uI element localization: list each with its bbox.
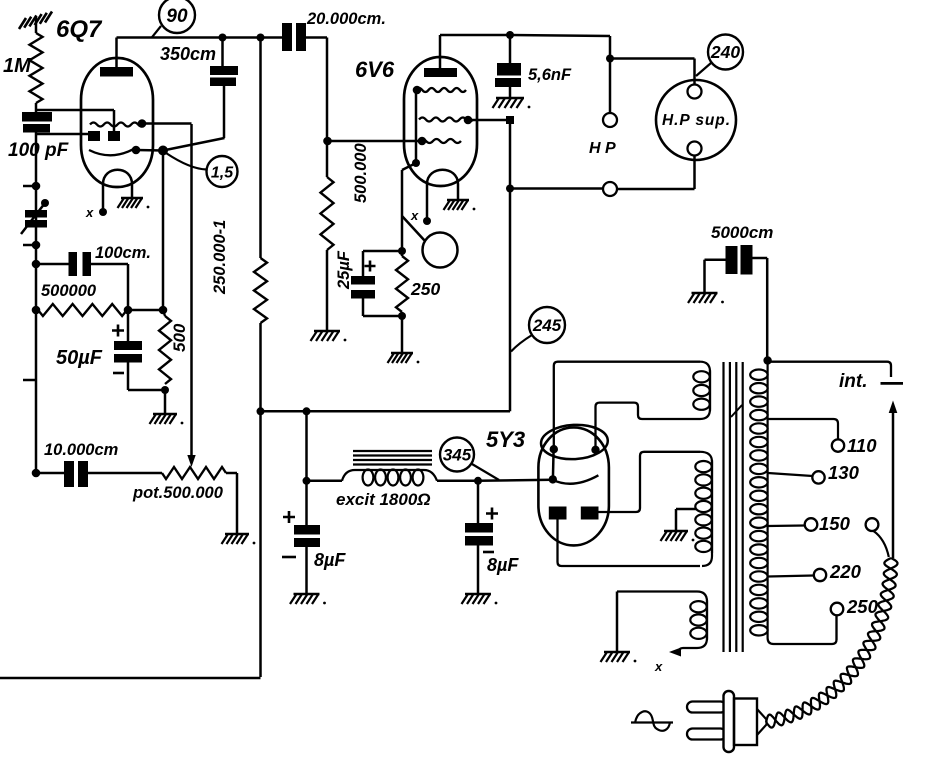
- svg-text:25µF: 25µF: [335, 250, 353, 290]
- diode plates (6Q7): [88, 131, 120, 141]
- label H P: [589, 140, 616, 157]
- wire: [136, 149, 163, 152]
- label 5,6nF: [528, 66, 572, 84]
- minus sign: [483, 551, 494, 554]
- node: [464, 116, 473, 125]
- svg-text:20.000cm.: 20.000cm.: [306, 10, 386, 28]
- svg-text:x: x: [410, 208, 419, 223]
- node tick: [23, 241, 40, 250]
- wire (B+ rail): [261, 410, 511, 413]
- terminal circle (HP bottom): [603, 182, 617, 196]
- internal lead (6V6): [402, 90, 420, 170]
- wire: [102, 184, 105, 209]
- node tick: [23, 379, 36, 382]
- node: [303, 477, 311, 485]
- ground: [493, 98, 531, 108]
- label 500 (rotated): [170, 323, 189, 352]
- node: [32, 306, 41, 315]
- cathode smile arc (6Q7): [89, 147, 137, 155]
- transformer secondary HT winding: [695, 452, 712, 566]
- terminal x (6V6 cathode): [410, 208, 431, 225]
- ground: [444, 200, 476, 210]
- plus sign: [283, 511, 295, 523]
- label 130: [828, 462, 860, 483]
- wire: [115, 38, 118, 68]
- svg-text:5,6nF: 5,6nF: [528, 66, 572, 84]
- wire: [128, 363, 165, 391]
- circled label 245: [529, 307, 565, 343]
- wire: [437, 480, 478, 483]
- grid 1 wavy (6V6): [416, 88, 466, 92]
- wire: [128, 309, 163, 312]
- wire: [468, 119, 510, 122]
- choke excit 1800 ohm (core): [353, 451, 432, 465]
- circled label 90: [152, 0, 195, 37]
- resistor R6 250 (cathode): [396, 251, 408, 316]
- twisted mains cord: [766, 558, 898, 728]
- ground: [388, 353, 420, 363]
- svg-text:250.000-1: 250.000-1: [211, 220, 229, 295]
- label 250.000-1 (rotated): [211, 220, 229, 295]
- wire: [510, 35, 610, 36]
- svg-text:1M: 1M: [3, 55, 32, 77]
- choke excit coil: [342, 470, 437, 486]
- anode plates (5Y3): [549, 507, 599, 520]
- svg-text:H.P sup.: H.P sup.: [662, 112, 730, 129]
- label 5Y3: [486, 427, 525, 452]
- filament cylinder (5Y3): [540, 423, 608, 484]
- wire: [478, 480, 553, 481]
- label 6V6: [355, 57, 395, 82]
- minus sign: [282, 556, 296, 559]
- node: [591, 446, 599, 454]
- capacitor C6 350cm: [210, 66, 238, 86]
- grid wavy (6Q7): [90, 123, 145, 127]
- svg-text:500: 500: [170, 323, 189, 352]
- terminal circle (HP sup bottom pin): [688, 142, 702, 156]
- svg-text:x: x: [654, 659, 663, 674]
- label 250: [846, 596, 879, 617]
- svg-text:int.: int.: [839, 371, 868, 392]
- node: [257, 34, 265, 42]
- svg-text:8µF: 8µF: [487, 555, 519, 575]
- wire: [363, 250, 402, 253]
- label 220: [829, 561, 862, 582]
- wire (bottom return): [0, 677, 261, 680]
- label 110: [847, 435, 877, 456]
- node: [124, 306, 133, 315]
- svg-text:6V6: 6V6: [355, 57, 395, 82]
- node: [413, 86, 422, 95]
- wire: [510, 187, 603, 190]
- transformer primary winding: [750, 361, 836, 645]
- wire: [163, 310, 165, 316]
- grid 3 wavy (6V6 control grid): [419, 139, 461, 143]
- mains plug: [687, 691, 767, 752]
- tap wire 150: [768, 518, 817, 531]
- svg-text:50µF: 50µF: [56, 347, 103, 369]
- ground: [222, 534, 256, 544]
- svg-text:220: 220: [829, 561, 862, 582]
- label 500.000 (rotated): [352, 143, 370, 203]
- node: [219, 34, 227, 42]
- node: [138, 119, 147, 128]
- terminal circle (HP sup top pin): [688, 85, 702, 99]
- label 350cm: [160, 44, 216, 64]
- label 150: [819, 513, 851, 534]
- anode (6V6 plate): [424, 68, 457, 77]
- plus sign: [486, 508, 498, 520]
- label 100cm.: [95, 244, 151, 262]
- svg-text:130: 130: [828, 462, 860, 483]
- tube 6V6 envelope: [404, 57, 477, 186]
- arrow x (heater lead): [654, 648, 681, 675]
- circled label 345: [440, 438, 499, 481]
- svg-text:150: 150: [819, 513, 851, 534]
- wire: [509, 35, 512, 97]
- resistor R1 1M: [30, 33, 43, 103]
- label 8µF: [487, 555, 519, 575]
- node A: [158, 146, 168, 156]
- svg-text:H P: H P: [589, 140, 616, 157]
- ground: [601, 652, 637, 662]
- wire (filament right leg): [596, 403, 701, 450]
- label excit 1800Ω: [336, 490, 431, 509]
- anode (6Q7 plate): [100, 67, 133, 77]
- wire: [91, 264, 128, 310]
- capacitor C9 5,6nF: [495, 63, 521, 87]
- label 100 pF: [8, 140, 70, 161]
- node: [550, 445, 558, 453]
- svg-text:500.000: 500.000: [352, 143, 370, 203]
- svg-text:5Y3: 5Y3: [486, 427, 525, 452]
- speaker H.P sup.: [656, 80, 736, 160]
- svg-text:345: 345: [443, 446, 472, 465]
- node: [32, 469, 41, 478]
- wire: [363, 251, 402, 316]
- wire (filament left to 5V winding): [554, 362, 700, 450]
- capacitor C1 100pF: [22, 112, 52, 133]
- transformer core: [724, 362, 743, 652]
- AC symbol: [631, 711, 673, 730]
- ground: [290, 594, 326, 604]
- label 5000cm: [711, 223, 773, 242]
- wire: [35, 103, 38, 112]
- wire (screen to B+): [509, 120, 512, 411]
- wire: [37, 133, 90, 136]
- wire: [226, 473, 237, 533]
- resistor R5 500.000 (6V6 grid leak): [321, 141, 334, 330]
- svg-text:x: x: [85, 205, 94, 220]
- plus sign: [112, 325, 124, 337]
- wire: [426, 184, 429, 218]
- selector arrow: [889, 401, 898, 559]
- svg-text:100 pF: 100 pF: [8, 140, 70, 161]
- capacitor C4 50uF: [114, 341, 142, 363]
- wire: [552, 449, 555, 479]
- wire: [401, 316, 404, 352]
- wire (right plate to HT winding top): [599, 452, 701, 512]
- selector terminal circle: [866, 518, 879, 531]
- label 10.000cm: [44, 441, 118, 459]
- label 500000: [41, 282, 97, 300]
- wire: [616, 592, 619, 652]
- wire (curve from terminal): [874, 531, 889, 557]
- wire: [35, 16, 38, 33]
- wire: [36, 472, 162, 475]
- node: [32, 260, 41, 269]
- svg-text:245: 245: [532, 316, 562, 335]
- wire (pointer line): [511, 335, 532, 352]
- wire: [753, 258, 768, 361]
- tap 250 circle: [831, 603, 844, 640]
- potentiometer pot.500.000: [162, 467, 226, 479]
- wire: [609, 36, 612, 59]
- node: [506, 31, 514, 39]
- dial lamp circle: [423, 233, 458, 268]
- node: [159, 306, 168, 315]
- transformer secondary 5V winding: [693, 362, 710, 419]
- tube 6Q7 envelope: [81, 58, 153, 187]
- svg-text:pot.500.000: pot.500.000: [132, 484, 224, 502]
- resistor R4 250.000-1: [254, 38, 267, 678]
- switch int. bar: [881, 382, 904, 385]
- wire: [306, 38, 327, 142]
- resistor R2 500000: [38, 304, 127, 316]
- capacitor C12 5000cm: [726, 245, 753, 275]
- node tick: [23, 182, 40, 191]
- wire (left plate to HT winding bottom): [558, 520, 701, 567]
- curve to 1,5 label: [166, 153, 207, 170]
- ground: [311, 331, 347, 341]
- svg-text:110: 110: [847, 435, 877, 456]
- tube 5Y3 envelope: [538, 427, 609, 545]
- label 8µF: [314, 550, 346, 570]
- wire (cathode chain): [401, 170, 404, 251]
- wire: [35, 133, 38, 474]
- capacitor C3 100cm: [69, 252, 92, 276]
- wire: [440, 35, 510, 68]
- wire: [457, 184, 460, 199]
- svg-text:10.000cm: 10.000cm: [44, 441, 118, 459]
- node: [161, 386, 169, 394]
- svg-text:100cm.: 100cm.: [95, 244, 151, 262]
- label 6Q7: [56, 16, 103, 43]
- wire: [609, 59, 612, 114]
- HT center tap wire: [676, 509, 696, 530]
- label 1M: [3, 55, 32, 77]
- node (primary top): [763, 356, 771, 364]
- wiper arrow (to pot): [187, 124, 195, 467]
- cathode arc (6Q7): [103, 170, 132, 184]
- tap wire 110: [768, 419, 844, 452]
- node: [418, 137, 427, 146]
- label 25µF (rotated): [335, 250, 353, 290]
- capacitor C8 25uF: [351, 276, 375, 299]
- svg-text:500000: 500000: [41, 282, 97, 300]
- wire: [307, 480, 343, 483]
- terminal x (6Q7 cathode): [85, 205, 107, 220]
- ground: [688, 293, 724, 303]
- tap wire 220: [768, 569, 826, 581]
- label 50µF: [56, 347, 103, 369]
- wire (diagonal to 350cm): [163, 138, 225, 151]
- ground: [118, 198, 150, 208]
- grid 2 wavy (6V6 screen): [419, 118, 473, 122]
- wire: [164, 390, 167, 413]
- capacitor C11 8uF: [465, 523, 493, 546]
- transformer secondary 6.3V winding: [617, 592, 707, 653]
- svg-text:350cm: 350cm: [160, 44, 216, 64]
- node: [323, 137, 332, 146]
- plus sign: [365, 261, 376, 272]
- node: [398, 247, 406, 255]
- svg-text:90: 90: [166, 6, 188, 27]
- minus sign: [113, 372, 124, 375]
- node: [132, 146, 141, 155]
- svg-text:1,5: 1,5: [211, 165, 234, 182]
- circled label 1,5: [207, 156, 238, 187]
- node (screen junction): [506, 116, 514, 124]
- wire: [617, 156, 695, 190]
- ground: [150, 414, 184, 424]
- capacitor C5 10.000cm: [64, 461, 88, 487]
- node: [549, 475, 557, 483]
- svg-text:excit 1800Ω: excit 1800Ω: [336, 490, 431, 509]
- svg-text:250: 250: [410, 279, 440, 299]
- node: [606, 55, 614, 63]
- svg-text:240: 240: [710, 42, 740, 62]
- wire: [223, 38, 225, 139]
- wire: [305, 481, 308, 593]
- node: [303, 407, 311, 415]
- label pot.500.000: [132, 484, 224, 502]
- wire: [305, 411, 308, 481]
- wire: [477, 481, 480, 593]
- terminal circle (HP top): [603, 113, 617, 127]
- wire: [131, 184, 134, 197]
- chassis ground (antenna, top-left): [19, 12, 52, 30]
- wire: [145, 122, 192, 125]
- cathode arc (6V6): [427, 170, 458, 184]
- svg-text:6Q7: 6Q7: [56, 16, 103, 43]
- capacitor C7 20.000cm: [282, 23, 306, 51]
- node: [398, 312, 406, 320]
- label 20.000cm.: [306, 10, 386, 28]
- wire: [328, 140, 422, 143]
- wire: [127, 310, 130, 341]
- wire: [36, 110, 114, 133]
- wire: [36, 263, 69, 266]
- capacitor C10 8uF: [294, 525, 320, 547]
- wire (node A down to 500 resistor): [162, 151, 165, 311]
- resistor R3 500: [159, 316, 171, 384]
- svg-text:8µF: 8µF: [314, 550, 346, 570]
- wire (B+ top bus): [117, 36, 283, 39]
- svg-text:5000cm: 5000cm: [711, 223, 773, 242]
- label 250: [410, 279, 440, 299]
- wire: [705, 260, 726, 292]
- ground: [462, 594, 498, 604]
- wire: [610, 59, 695, 85]
- wire (to int switch): [768, 362, 891, 377]
- label int.: [839, 371, 868, 392]
- node: [506, 185, 514, 193]
- node: [474, 477, 482, 485]
- variable capacitor C2 (trimmer): [21, 199, 49, 234]
- circled label 240: [696, 35, 743, 77]
- wire (diagonal to lamp): [402, 216, 425, 241]
- svg-text:250: 250: [846, 596, 879, 617]
- tap wire 130: [768, 471, 825, 483]
- ground: [661, 531, 695, 541]
- node: [257, 407, 265, 415]
